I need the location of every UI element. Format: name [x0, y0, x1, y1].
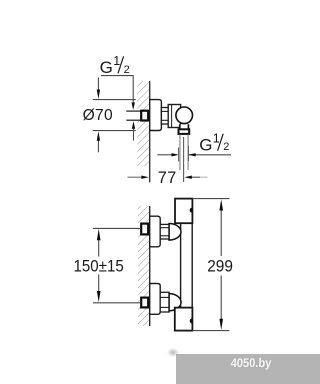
top connection: escutcheon: [150, 216, 161, 247]
top connection: nut: [160, 224, 169, 239]
bottom connection: dome of S-union: [169, 294, 181, 311]
opposing up arrow under pipe: [133, 128, 135, 141]
svg-text:2: 2: [124, 64, 130, 76]
outlet collar: [179, 129, 190, 134]
pipe centerline (ext for 77): [183, 137, 185, 182]
extension ticks at outlet: [178, 148, 180, 162]
svg-text:2: 2: [223, 141, 229, 153]
square pipe fitting in wall (upper view): [141, 111, 148, 121]
150±15 dimension: [93, 227, 141, 229]
299 dimension: [192, 198, 229, 200]
svg-text:Ø70: Ø70: [83, 107, 113, 124]
top cap of body: [175, 199, 192, 224]
nut (upper view): [161, 108, 168, 125]
svg-text:1: 1: [113, 54, 120, 68]
neck below knob: [180, 125, 189, 130]
leader arrows for outlet G 1/2: [157, 154, 172, 156]
label G 1/2 (right, outlet): [199, 132, 229, 155]
knob circle (upper view): [176, 107, 193, 124]
bottom cap of body: [175, 308, 193, 331]
wall face line lower view: [149, 206, 151, 326]
watermark band 4050.by: [176, 354, 320, 384]
escutcheon (upper view): [150, 100, 162, 131]
body column: [181, 222, 193, 308]
77 dimension: [128, 176, 142, 178]
top button dot: [190, 208, 193, 213]
bottom connection: square fitting: [141, 298, 148, 308]
svg-text:G: G: [199, 135, 212, 154]
svg-text:G: G: [100, 58, 113, 77]
top connection: dome of S-union: [169, 224, 181, 241]
Ø70 dimension: [93, 99, 136, 101]
leader for G 1/2 top: underline, corner, down arrow: [101, 76, 133, 103]
bottom connection: nut: [160, 292, 169, 312]
supply pipe through wall (upper view): [126, 111, 140, 120]
bottom button dot: [190, 318, 193, 323]
wall (hatched) upper view: [137, 81, 149, 166]
svg-text:77: 77: [158, 169, 177, 187]
svg-text:1: 1: [213, 132, 220, 146]
svg-text:150±15: 150±15: [74, 258, 124, 276]
valve body block (upper view): [168, 105, 180, 128]
wall (hatched) lower view: [138, 206, 150, 326]
wall face line upper view: [149, 81, 151, 182]
downpipe (shower outlet pipe): [179, 135, 181, 171]
label G 1/2 (top): [100, 54, 130, 77]
top connection: square fitting: [141, 224, 148, 235]
svg-text:299: 299: [207, 257, 233, 276]
bottom connection: escutcheon: [150, 284, 161, 315]
